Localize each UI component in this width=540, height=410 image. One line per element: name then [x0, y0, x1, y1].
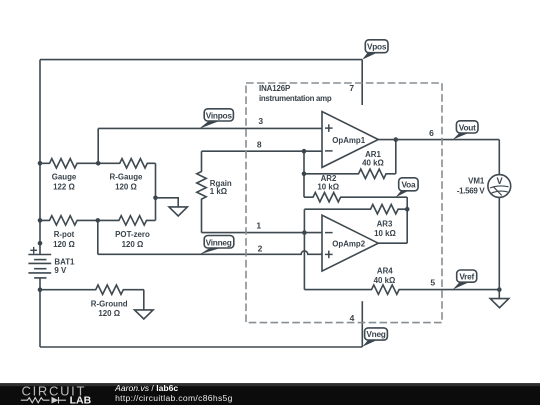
svg-text:2: 2 — [258, 244, 263, 254]
svg-text:120 Ω: 120 Ω — [122, 240, 144, 249]
svg-text:Vout: Vout — [459, 122, 476, 132]
node Vref — [497, 287, 502, 292]
wire left rail — [39, 60, 41, 255]
svg-text:R-Ground: R-Ground — [91, 299, 128, 308]
svg-text:Vref: Vref — [459, 271, 474, 281]
node AR3 right — [405, 207, 410, 212]
wire bottom Vneg rail — [40, 346, 362, 348]
wire AR1 right vertical — [395, 140, 397, 174]
svg-text:1 kΩ: 1 kΩ — [210, 187, 227, 196]
svg-text:Vinpos: Vinpos — [206, 110, 233, 120]
op-amp U2 OpAmp2 — [322, 215, 378, 271]
svg-text:120 Ω: 120 Ω — [53, 240, 75, 249]
wire pin 4 stub — [361, 301, 363, 347]
svg-text:V: V — [497, 176, 504, 186]
svg-text:VM1: VM1 — [468, 177, 485, 186]
node bridge right mid — [153, 196, 158, 201]
wire pin 6 output — [378, 139, 499, 141]
node pin1/Rg — [302, 230, 307, 235]
svg-text:10 kΩ: 10 kΩ — [374, 229, 396, 238]
svg-text:Vinneg: Vinneg — [206, 238, 232, 248]
wire to R-Ground ground — [143, 290, 145, 310]
svg-text:AR4: AR4 — [377, 266, 393, 275]
wire Vinpos vertical — [97, 128, 99, 163]
net flag Vneg — [362, 328, 387, 347]
wire pin 2 with hop — [98, 251, 322, 254]
wire to bridge ground — [156, 198, 179, 207]
node A (rail/Gauge junction) — [38, 161, 43, 166]
voltmeter VM1 — [488, 175, 511, 198]
node OpAmp1 output — [394, 137, 399, 142]
wire pin 7 stub — [361, 60, 363, 105]
node battery bottom — [38, 287, 43, 292]
net flag Vref — [453, 270, 477, 289]
resistor POT-zero — [98, 216, 156, 225]
resistor R-Gauge — [98, 159, 155, 168]
node B (rail/R-pot junction) — [38, 218, 43, 223]
battery BAT1 — [39, 254, 41, 256]
svg-text:40 kΩ: 40 kΩ — [374, 276, 396, 285]
svg-text:POT-zero: POT-zero — [115, 230, 150, 239]
svg-text:LAB: LAB — [70, 395, 92, 405]
net flag Vinpos — [199, 109, 233, 129]
dashed box INA126P — [246, 83, 442, 323]
svg-text:8: 8 — [257, 140, 262, 150]
wire pin 3 — [98, 127, 322, 129]
node bridge top mid — [96, 161, 101, 166]
svg-text:10 kΩ: 10 kΩ — [317, 183, 339, 192]
resistor AR2 — [304, 193, 407, 202]
svg-text:INA126P: INA126P — [259, 84, 290, 93]
svg-text:AR3: AR3 — [377, 219, 393, 228]
wire left rail bottom — [39, 290, 41, 347]
wire AR1-AR2 vertical — [303, 151, 305, 197]
node battery top terminal — [38, 241, 43, 246]
svg-text:OpAmp2: OpAmp2 — [332, 240, 365, 249]
svg-text:3: 3 — [258, 116, 263, 126]
ground Vref — [498, 290, 500, 299]
svg-text:Aaron.vs / lab6c: Aaron.vs / lab6c — [114, 383, 178, 393]
resistor R-Ground — [40, 285, 144, 294]
svg-text:1: 1 — [256, 221, 261, 231]
svg-text:R-Gauge: R-Gauge — [110, 173, 143, 182]
footer bar — [0, 383, 540, 405]
svg-text:OpAmp1: OpAmp1 — [332, 136, 365, 145]
resistor AR3 — [304, 205, 407, 214]
node AR1 left — [302, 172, 307, 177]
ground bridge — [169, 207, 187, 216]
wire VM1 to Vref node — [498, 197, 500, 289]
svg-text:4: 4 — [350, 313, 355, 323]
svg-text:120 Ω: 120 Ω — [98, 309, 120, 318]
svg-text:40 kΩ: 40 kΩ — [362, 158, 384, 167]
wire bridge right side — [155, 163, 157, 220]
wire Voa vertical — [406, 197, 408, 243]
node bridge bottom mid — [96, 218, 101, 223]
svg-text:6: 6 — [429, 128, 434, 138]
svg-text:R-pot: R-pot — [54, 230, 75, 239]
svg-text:Vneg: Vneg — [366, 329, 385, 339]
wire pin 1 — [202, 232, 323, 234]
op-amp U1 OpAmp1 — [322, 112, 378, 168]
wire OpAmp2 output — [378, 242, 407, 244]
resistor AR4 — [304, 285, 499, 294]
wire AR3-AR4 vertical — [303, 209, 305, 289]
svg-text:-1.569 V: -1.569 V — [457, 187, 485, 196]
net flag Vinneg — [200, 236, 234, 255]
node pin8/Rg — [302, 149, 307, 154]
svg-text:7: 7 — [349, 83, 354, 93]
resistor R-pot — [40, 216, 98, 225]
wire Vout to VM1 — [498, 140, 500, 175]
svg-text:Gauge: Gauge — [52, 173, 77, 182]
svg-text:instrumentation amp: instrumentation amp — [259, 94, 332, 103]
svg-text:Vpos: Vpos — [367, 42, 387, 52]
resistor Rgain — [197, 151, 206, 232]
svg-text:5: 5 — [430, 278, 435, 288]
resistor AR1 — [304, 169, 396, 178]
svg-text:Voa: Voa — [401, 180, 415, 190]
footer logo squiggle — [21, 397, 66, 404]
net flag Vpos — [362, 40, 388, 60]
svg-text:120 Ω: 120 Ω — [115, 183, 137, 192]
svg-text:9 V: 9 V — [54, 266, 67, 275]
svg-text:http://circuitlab.com/c86hs5g: http://circuitlab.com/c86hs5g — [115, 393, 233, 403]
svg-text:122 Ω: 122 Ω — [53, 183, 75, 192]
net flag Vout — [453, 121, 478, 140]
wire Vinneg vertical — [97, 220, 99, 254]
wire top Vpos rail — [40, 59, 362, 61]
resistor Gauge — [40, 159, 98, 168]
ground R-Ground — [135, 310, 154, 319]
wire pin 8 — [202, 150, 323, 152]
net flag Voa — [396, 178, 419, 197]
